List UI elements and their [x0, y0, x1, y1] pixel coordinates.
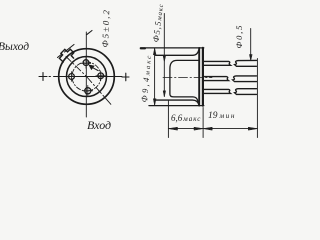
wire bottom dim extension left — [167, 101, 169, 138]
transistor lead middle far — [233, 76, 257, 82]
capacitor body circle — [67, 57, 107, 97]
wire vertical centerline — [85, 32, 87, 117]
wire top extension line — [141, 47, 204, 49]
transistor lead top far — [235, 60, 257, 66]
node tab key — [59, 49, 73, 62]
transistor pin bottom — [85, 88, 91, 94]
wire dashed leader to tab (F5 dimension) — [58, 31, 93, 58]
transistor lead bottom far — [235, 89, 257, 95]
wire bottom extension line — [149, 105, 204, 107]
capacitor outer flange circle — [59, 49, 115, 105]
wire side centerline — [163, 77, 212, 79]
wire diameter 5.5 leader — [163, 14, 165, 97]
transistor pin right — [98, 73, 104, 79]
transistor can outer profile — [156, 50, 199, 105]
transistor pin left — [69, 74, 75, 80]
svg-text:19мин: 19мин — [208, 111, 236, 121]
svg-text:Ф9,4макс: Ф9,4макс — [139, 53, 153, 102]
svg-text:Ф5,5макс: Ф5,5макс — [151, 3, 166, 43]
svg-text:6,6макс: 6,6макс — [171, 113, 201, 123]
transistor lead bottom near — [204, 89, 231, 93]
svg-text:Вход: Вход — [87, 118, 111, 132]
wire pin-circle dash-dot — [72, 62, 101, 91]
wire arrow to pin circle — [92, 67, 98, 70]
transistor lead top near — [204, 61, 231, 65]
wire bottom dim extension mid — [202, 108, 204, 138]
transistor can inner profile — [170, 60, 199, 101]
wire 45-degree tab centerline — [66, 57, 87, 77]
svg-text:Ф5±0,2: Ф5±0,2 — [100, 8, 111, 48]
transistor pin top — [83, 60, 89, 66]
svg-text:Выход: Выход — [0, 41, 29, 53]
wire diameter 9.4 dimension line — [154, 48, 156, 106]
transistor flange — [198, 48, 200, 106]
wire lead diameter leader — [250, 29, 252, 60]
wire horizontal centerline — [39, 73, 47, 81]
svg-text:Ф0,5: Ф0,5 — [234, 24, 244, 49]
wire bottom dimension line — [168, 128, 257, 130]
transistor lead middle near — [204, 77, 229, 81]
wire bottom dim extension right — [256, 59, 258, 138]
